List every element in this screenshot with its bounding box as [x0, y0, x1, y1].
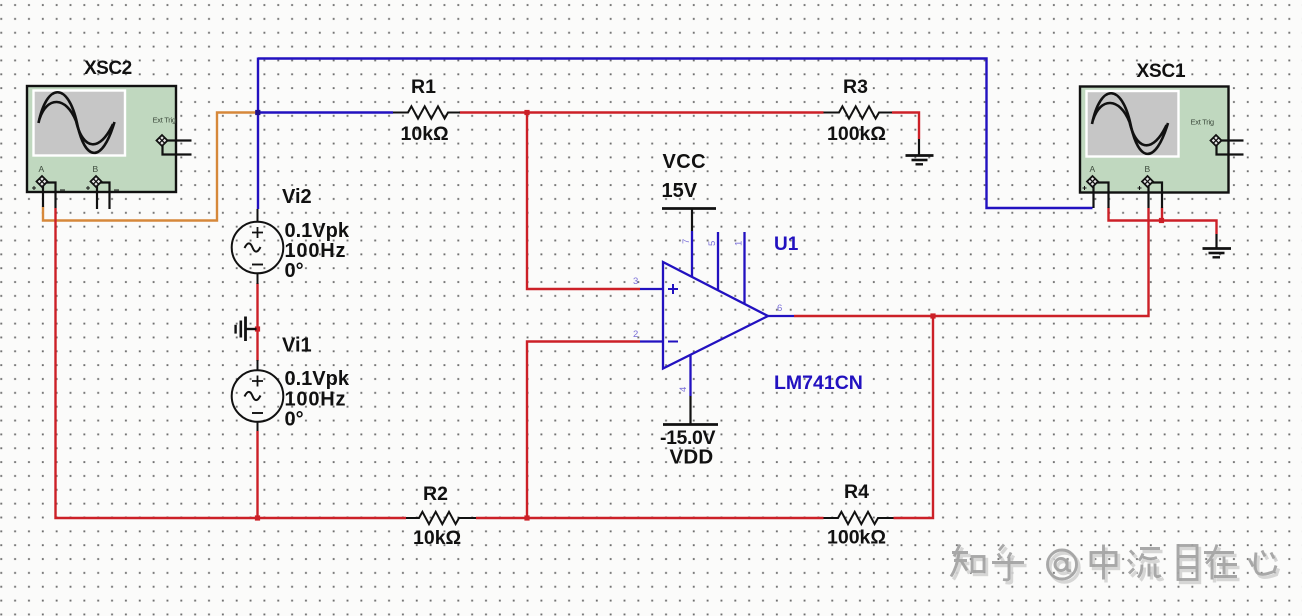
- char 心: [1249, 551, 1276, 575]
- svg-text:0°: 0°: [285, 409, 304, 431]
- svg-text:R3: R3: [843, 76, 868, 98]
- char 在: [1204, 545, 1237, 580]
- char 流: [1128, 549, 1161, 578]
- pin 7 lead: [691, 231, 693, 277]
- svg-text:15V: 15V: [662, 180, 698, 202]
- svg-text:100kΩ: 100kΩ: [827, 527, 886, 549]
- svg-text:0.1Vpk: 0.1Vpk: [285, 220, 350, 242]
- svg-text:VDD: VDD: [670, 446, 714, 469]
- svg-text:100Hz: 100Hz: [285, 389, 347, 411]
- pin 1 lead: [743, 232, 745, 304]
- svg-text:Ext Trig: Ext Trig: [153, 116, 176, 125]
- svg-text:A: A: [1090, 164, 1096, 174]
- svg-text:XSC1: XSC1: [1137, 61, 1186, 82]
- watermark zhihu: [954, 548, 1279, 583]
- svg-text:3: 3: [633, 276, 638, 287]
- minus mark: [668, 341, 678, 343]
- svg-text:R2: R2: [423, 483, 448, 505]
- svg-text:100Hz: 100Hz: [285, 240, 347, 262]
- terminal B connector: [1138, 176, 1163, 208]
- power VDD symbol: [663, 396, 718, 425]
- wire: red op-amp output rail: [794, 208, 1149, 316]
- pin 6 stub: [768, 315, 794, 317]
- svg-text:4: 4: [678, 387, 689, 392]
- terminal A connector: [1083, 176, 1109, 208]
- svg-text:0°: 0°: [285, 260, 304, 282]
- wire: red left big loop XSC2-A down to bottom rail: [56, 208, 407, 518]
- pin 4 lead: [689, 355, 691, 396]
- svg-text:10kΩ: 10kΩ: [413, 527, 461, 549]
- node: junction bottom rail / pin2 riser: [524, 515, 529, 520]
- plus mark: [668, 284, 678, 294]
- node: junction Vi2/R1/orange: [255, 110, 260, 115]
- node: junction ground tap between Vi2 and Vi1: [255, 326, 260, 331]
- wire: red Vi2 to Vi1: [256, 283, 258, 361]
- pin 3 stub: [640, 288, 663, 290]
- wire: blue vertical into Vi2: [257, 58, 259, 210]
- ground (R3): [906, 139, 934, 164]
- node: junction R1/R3/pin3: [524, 110, 529, 115]
- svg-text:R4: R4: [844, 481, 869, 503]
- resistor R4: [824, 512, 894, 524]
- node: junction output / R4 riser: [930, 313, 935, 318]
- svg-text:Vi1: Vi1: [282, 335, 312, 357]
- wire: red XSC1-B+ stub: [1161, 208, 1163, 222]
- svg-text:1: 1: [734, 241, 745, 246]
- node: junction bottom rail / Vi1: [255, 515, 260, 520]
- svg-text:7: 7: [681, 239, 692, 244]
- svg-text:LM741CN: LM741CN: [774, 372, 863, 394]
- wire: red bottom rail R2 right to R4 left: [476, 517, 824, 519]
- pin 5 lead: [717, 232, 719, 290]
- char 知: [951, 545, 984, 577]
- wire: red R1 to R3 top rail: [460, 111, 824, 113]
- char @: [1048, 550, 1077, 579]
- svg-text:2: 2: [633, 329, 638, 340]
- power VCC symbol: [662, 209, 716, 232]
- svg-text:Vi2: Vi2: [282, 186, 312, 208]
- resistor R1: [393, 106, 460, 118]
- svg-text:A: A: [39, 164, 45, 174]
- resistor R2: [406, 512, 476, 524]
- wire: red Vi1 bottom: [256, 431, 258, 519]
- ground (XSC1): [1203, 234, 1232, 257]
- svg-text:5: 5: [707, 241, 718, 246]
- wire: orange XSC2 A to input node: [43, 113, 257, 221]
- source Vi2: [232, 209, 284, 284]
- char 目: [1178, 546, 1197, 580]
- wire: red R4 right riser to output: [894, 315, 934, 518]
- char 乎: [992, 545, 1024, 580]
- pin 2 stub: [640, 340, 663, 342]
- terminal B connector: [86, 176, 119, 209]
- oscilloscope XSC2: [27, 86, 192, 209]
- svg-text:100kΩ: 100kΩ: [827, 123, 886, 145]
- svg-text:XSC2: XSC2: [84, 58, 132, 79]
- svg-text:Ext Trig: Ext Trig: [1191, 118, 1214, 127]
- svg-text:10kΩ: 10kΩ: [401, 123, 449, 145]
- svg-text:U1: U1: [774, 234, 799, 255]
- wire: blue horizontal to R1: [258, 111, 393, 113]
- node: junction XSC1 A/B ground line: [1159, 218, 1164, 223]
- source Vi1: [232, 360, 284, 431]
- resistor R3: [824, 106, 893, 118]
- wire: red XSC1-A+ to ground: [1109, 208, 1217, 235]
- svg-text:VCC: VCC: [663, 151, 706, 173]
- svg-text:B: B: [1145, 164, 1151, 174]
- wire: blue net from Vi2 top to XSC1 A: [258, 59, 1093, 209]
- wire: red riser to op-amp pin2: [527, 342, 640, 519]
- ext trig connector: [1210, 135, 1243, 155]
- char 中: [1091, 545, 1116, 580]
- ground (sources, rotated left): [236, 317, 257, 342]
- svg-text:R1: R1: [411, 76, 436, 98]
- svg-text:0.1Vpk: 0.1Vpk: [285, 368, 350, 390]
- svg-text:6: 6: [777, 303, 782, 314]
- op-amp U1 LM741CN: [640, 231, 794, 396]
- terminal A connector: [32, 176, 65, 208]
- oscilloscope XSC1: [1080, 87, 1244, 209]
- svg-text:B: B: [93, 164, 99, 174]
- wire: red drop to op-amp pin3: [527, 113, 640, 290]
- wire: red R3 right to ground: [892, 113, 919, 140]
- ext trig connector: [156, 135, 191, 155]
